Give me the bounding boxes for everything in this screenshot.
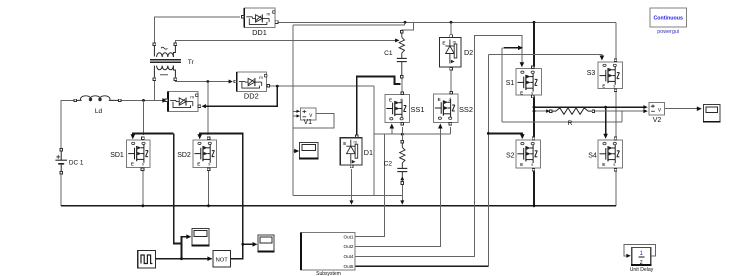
svg-text:m: m: [259, 75, 263, 80]
svg-text:z: z: [640, 260, 643, 266]
wire: SD1 gate feed from pulse riser (thick): [133, 133, 174, 135]
diode block D2: [439, 38, 461, 68]
scope1: [191, 228, 209, 245]
wire: D1 top thick riser and elbow to C1/SS1 node: [357, 76, 401, 135]
wire: D1 bottom to bus: [351, 169, 353, 202]
wire: gate line y=134.2 to SS blocks: [374, 133, 451, 135]
svg-text:s: s: [142, 162, 144, 167]
wire: y=195.4 line from V1 riser to C2 bottom: [293, 194, 402, 196]
DC source DC 1: [55, 152, 67, 172]
wire: SS1 source to C2 top: [401, 127, 403, 142]
inductor Ld: [77, 96, 119, 101]
wire: Ld to flipped diode input: [119, 99, 164, 101]
transformer Tr: [150, 46, 181, 78]
wire: V2 output to scope4: [664, 108, 697, 110]
wire: DC source bottom to bottom bus: [60, 175, 62, 206]
svg-text:V1: V1: [304, 119, 313, 126]
wire: pulse generator output to NOT (thick): [156, 258, 212, 260]
wire: stub into scope3 input: [293, 150, 296, 152]
svg-text:s: s: [531, 162, 533, 167]
RC snubber branch C1: [397, 33, 407, 75]
RC branch C2 bottom to bus with down arrow: [401, 183, 403, 201]
Unit Delay block with feedback loop: [624, 245, 655, 256]
wire: S2 gate line (thick): [488, 133, 522, 135]
wire: Subsystem Out2 riser to SS2 gate: [356, 127, 441, 246]
transistor SD1: [127, 140, 151, 168]
wire: S3-S4 leg: [615, 91, 617, 139]
bottom bus (ground return): [61, 205, 616, 207]
arrow into scope3: [294, 149, 299, 154]
svg-text:Ld: Ld: [95, 108, 103, 115]
wire: midpoint through R to V2-: [534, 110, 549, 112]
RC snubber branch C2: [397, 143, 407, 181]
wire: pulse riser x=173.6 with jog (thick): [174, 133, 182, 258]
wire: V1 riser from line B down to C2-bottom line: [292, 25, 294, 195]
svg-text:S1: S1: [506, 80, 515, 87]
svg-text:E: E: [131, 162, 134, 167]
svg-text:E: E: [389, 98, 392, 103]
wire: Tr secondary-top right port to C1 top (arrow): [175, 40, 396, 43]
svg-text:D2: D2: [464, 48, 473, 57]
wire: drop from bus into S3 top port: [615, 22, 617, 58]
svg-text:S3: S3: [587, 70, 596, 77]
svg-text:Subsystem: Subsystem: [316, 271, 341, 276]
wire: D2 top to bus / D2 bottom to SS2 top: [450, 22, 452, 36]
svg-text:C2: C2: [384, 161, 393, 168]
svg-text:C1: C1: [384, 50, 393, 57]
wire: Tr primary top-left port up to DD1 input: [154, 17, 240, 45]
Subsystem block: [301, 233, 355, 271]
svg-text:E: E: [343, 141, 346, 146]
svg-text:D1: D1: [364, 148, 373, 157]
wire: line B from V1 riser to bus: [293, 22, 404, 25]
svg-text:R: R: [568, 120, 573, 127]
svg-text:E: E: [442, 41, 445, 46]
svg-text:s: s: [531, 90, 533, 95]
wire: S4 leg bottom corner: [615, 205, 617, 207]
svg-text:s: s: [613, 84, 615, 89]
svg-text:m: m: [190, 95, 194, 100]
wire: stubs into V1 inputs: [293, 110, 299, 112]
wire: DD2 node down-left into flipped diode right port (thick): [203, 86, 277, 106]
svg-text:Out2: Out2: [344, 244, 354, 249]
svg-text:Out1: Out1: [344, 234, 354, 239]
diode block D1: [340, 138, 362, 165]
wire: C1 bottom to SS1 top: [401, 77, 403, 93]
wire: vertical x=373.8 from DD2 node down to C2-bottom line: [373, 86, 375, 195]
transistor S4: [598, 140, 623, 168]
svg-text:E: E: [197, 162, 200, 167]
wire: Subsystem Out4 riser to S3/S2 gates (thick wire from block): [356, 265, 489, 267]
wire: V1 output loop around to scope riser: [293, 114, 334, 128]
svg-text:DD1: DD1: [252, 28, 267, 37]
voltage measurement V2: [649, 103, 664, 115]
svg-text:S2: S2: [506, 152, 515, 159]
transistor SS1: [385, 95, 410, 123]
svg-text:E: E: [602, 162, 605, 167]
wire: branch to scope1 (thick): [182, 237, 188, 244]
svg-text:DD2: DD2: [244, 92, 259, 101]
wire: gate-link y=47.8 (thick) and V2- sense drop x=502: [504, 47, 520, 49]
scope3: [299, 142, 318, 158]
wire: SS2 source port drop to line: [450, 127, 452, 134]
wire: thick leg from bus through S1/S2 to bottom bus: [533, 22, 535, 67]
svg-text:E: E: [520, 162, 523, 167]
arrow up into SS1 gate: [391, 127, 393, 134]
wire: C1 top elbow to bus: [402, 22, 414, 32]
wire: y=121.9 sense line to V2- riser: [502, 121, 622, 123]
wire: NOT output riser to SD2 gate (thick): [200, 133, 243, 258]
wire: midpoint to V2+ (thick): [534, 106, 645, 108]
wire: SD1 bottom to bus: [142, 171, 144, 206]
transistor SD2: [193, 140, 217, 168]
transistor SS2: [433, 94, 458, 122]
junction: S2 leg on bus: [533, 204, 536, 207]
svg-text:E: E: [438, 97, 441, 102]
svg-text:m: m: [267, 11, 271, 16]
wire: left source loop top: [61, 100, 76, 147]
svg-text:v: v: [658, 108, 661, 114]
wire: branch to scope2 (thick): [243, 243, 255, 245]
svg-text:SD1: SD1: [110, 152, 124, 159]
svg-text:Out5: Out5: [344, 264, 354, 269]
wire: S4 gate drop from V2+ line: [605, 107, 607, 134]
wire: DD2 output to corner x=373.8: [270, 85, 374, 87]
diode block DD2: [237, 72, 267, 92]
wire: Tr bottom-right port to DD2 input: [175, 80, 231, 83]
svg-text:Continuous: Continuous: [653, 15, 682, 21]
svg-text:m: m: [354, 140, 358, 145]
svg-text:Tr: Tr: [188, 59, 195, 66]
svg-text:powergui: powergui: [657, 29, 679, 35]
wire: Subsystem Out3 riser to S1 gate line: [356, 36, 522, 257]
wire: SD2 bottom to bus: [208, 171, 210, 206]
logical NOT block: [213, 250, 231, 267]
svg-text:Out4: Out4: [344, 254, 354, 259]
voltage measurement V1: [300, 108, 316, 120]
wire: SD2 top port riser: [207, 82, 209, 136]
wire: S3 gate line: [488, 54, 602, 56]
diode block DD1: [244, 8, 275, 27]
svg-text:s: s: [613, 162, 615, 167]
svg-text:Unit Delay: Unit Delay: [630, 267, 654, 273]
svg-text:DC 1: DC 1: [69, 159, 84, 166]
transistor S2: [516, 140, 541, 168]
resistor R: [552, 108, 592, 114]
transistor S1: [516, 69, 541, 96]
svg-text:S4: S4: [588, 152, 597, 159]
svg-text:SS2: SS2: [459, 105, 473, 114]
diode block D-free: [168, 91, 198, 111]
scope2: [257, 235, 274, 252]
svg-text:E: E: [520, 90, 523, 95]
svg-text:m: m: [453, 39, 457, 44]
svg-text:V2: V2: [653, 117, 662, 124]
pulse generator: [138, 250, 156, 268]
svg-text:s: s: [208, 162, 210, 167]
wire: SD1 top port riser: [143, 100, 145, 135]
svg-text:E: E: [602, 84, 605, 89]
powergui block: [650, 8, 686, 27]
svg-text:SD2: SD2: [177, 152, 191, 159]
svg-text:NOT: NOT: [216, 258, 229, 264]
svg-text:SS1: SS1: [411, 105, 425, 114]
scope4: [703, 105, 720, 122]
transistor S3: [598, 62, 622, 89]
wire: top bus node A from DD1 output to right drop at x=616: [278, 21, 616, 23]
node A junction dots: [404, 21, 407, 24]
wire: Tr secondary-bottom left port down to Ld node: [153, 81, 155, 101]
wire: Subsystem Out1 to SS1-gate line riser: [356, 134, 385, 236]
